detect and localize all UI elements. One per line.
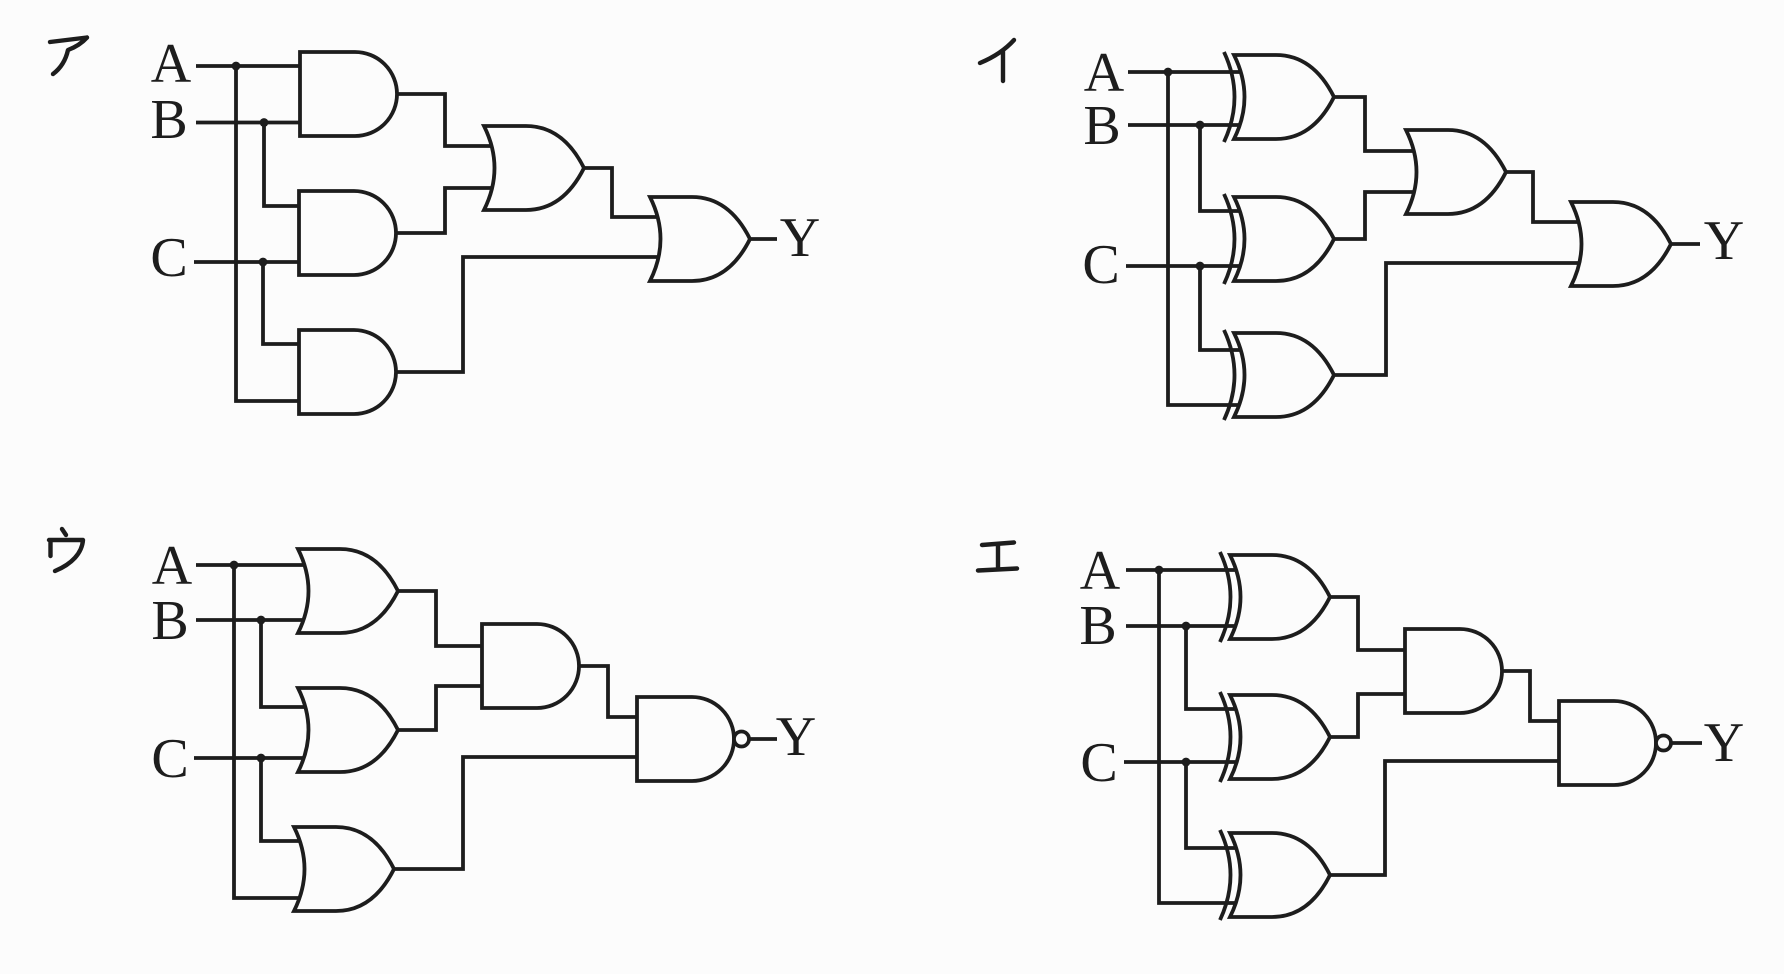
svg-text:Y: Y	[776, 706, 816, 768]
wire XOR2 out to OR4	[1332, 192, 1414, 239]
wire XOR2 out to AND4	[1328, 694, 1409, 737]
wire input C	[194, 756, 308, 760]
wire OR3 out to NAND5	[392, 757, 641, 869]
wire input B	[196, 618, 308, 622]
label エ (katakana)	[978, 543, 1017, 571]
wire input A	[196, 563, 308, 567]
wire input C	[194, 260, 304, 264]
node A junction	[1164, 68, 1173, 77]
label ア (katakana)	[50, 38, 87, 75]
or-gate C2	[298, 688, 398, 772]
svg-text:A: A	[151, 33, 192, 95]
wire input A	[1126, 568, 1236, 572]
wire OR5 out to Y	[748, 237, 777, 241]
node C junction	[259, 258, 268, 267]
wire OR4 out to OR5	[1504, 172, 1581, 222]
wire XOR1 out to AND4	[1328, 597, 1409, 650]
wire NAND5 out to Y	[748, 737, 777, 741]
nand-gate C5	[637, 697, 749, 781]
wire OR4 out to OR5	[582, 168, 660, 217]
xor-gate B3	[1224, 330, 1334, 420]
svg-text:A: A	[152, 535, 193, 597]
wire OR5 out to Y	[1669, 242, 1700, 246]
wire AND3 out to OR5	[394, 257, 660, 372]
label ウ (katakana)	[49, 529, 83, 571]
wire input B	[1126, 624, 1236, 628]
and-gate D4	[1405, 629, 1502, 713]
or-gate C3	[294, 827, 394, 911]
wire C branch to XOR3	[1186, 762, 1236, 848]
wire A branch to XOR3	[1159, 570, 1236, 903]
wire XOR3 out to OR5	[1332, 263, 1581, 375]
wire OR2 out to AND4	[396, 686, 486, 730]
and-gate A1	[300, 52, 397, 136]
wire XOR3 out to NAND5	[1328, 761, 1563, 875]
node B junction	[257, 616, 266, 625]
wire A branch to AND3	[236, 66, 304, 401]
node B junction	[260, 118, 269, 127]
node A junction	[230, 561, 239, 570]
node A junction	[1155, 566, 1164, 575]
and-gate C4	[482, 624, 579, 708]
svg-text:B: B	[1079, 595, 1116, 657]
wire A branch to OR3	[234, 565, 305, 898]
wire C branch to XOR3	[1200, 266, 1240, 350]
wire B branch to XOR2	[1186, 626, 1236, 709]
wire XOR1 out to OR4	[1332, 97, 1414, 151]
or-gate B5	[1571, 202, 1671, 286]
svg-text:A: A	[1080, 540, 1121, 602]
svg-text:C: C	[151, 728, 188, 790]
wire input B	[1128, 123, 1240, 127]
or-gate C1	[298, 549, 398, 633]
svg-text:B: B	[151, 590, 188, 652]
xor-gate D1	[1220, 552, 1330, 642]
wire input A	[1128, 70, 1240, 74]
wire input C	[1126, 264, 1240, 268]
node B junction	[1182, 622, 1191, 631]
svg-text:Y: Y	[1704, 712, 1744, 774]
node C junction	[1182, 758, 1191, 767]
xor-gate B2	[1224, 194, 1334, 284]
wire input B	[196, 121, 305, 125]
svg-text:B: B	[150, 89, 187, 151]
xor-gate B1	[1224, 52, 1334, 142]
svg-text:C: C	[1080, 732, 1117, 794]
nand-gate D5	[1559, 701, 1671, 785]
wire B branch to AND2	[264, 123, 304, 207]
or-gate A4	[484, 126, 584, 210]
and-gate A3	[299, 330, 396, 414]
svg-text:Y: Y	[780, 207, 820, 269]
node A junction	[232, 62, 241, 71]
xor-gate D3	[1220, 830, 1330, 920]
wire C branch to OR3	[261, 758, 305, 841]
svg-text:Y: Y	[1704, 210, 1744, 272]
node C junction	[257, 754, 266, 763]
wire A branch to XOR3	[1168, 72, 1240, 405]
node C junction	[1196, 262, 1205, 271]
wire input C	[1124, 760, 1236, 764]
wire B branch to OR2	[261, 620, 308, 707]
wire C branch to AND3	[263, 262, 304, 344]
xor-gate D2	[1220, 692, 1330, 782]
wire input A	[196, 64, 305, 68]
wire OR1 out to AND4	[396, 591, 486, 646]
svg-text:B: B	[1083, 95, 1120, 157]
wire AND2 out to OR4	[394, 188, 492, 233]
wire B branch to XOR2	[1200, 125, 1240, 211]
wire AND1 out to OR4	[395, 94, 492, 146]
wire AND4 out to NAND5	[577, 666, 641, 717]
or-gate A5	[650, 197, 750, 281]
node B junction	[1196, 121, 1205, 130]
wire NAND5 out to Y	[1671, 741, 1702, 745]
or-gate B4	[1406, 130, 1506, 214]
and-gate A2	[299, 191, 396, 275]
wire AND4 out to NAND5	[1500, 671, 1563, 721]
label イ (katakana)	[980, 40, 1014, 81]
svg-text:C: C	[150, 227, 187, 289]
svg-text:C: C	[1082, 234, 1119, 296]
